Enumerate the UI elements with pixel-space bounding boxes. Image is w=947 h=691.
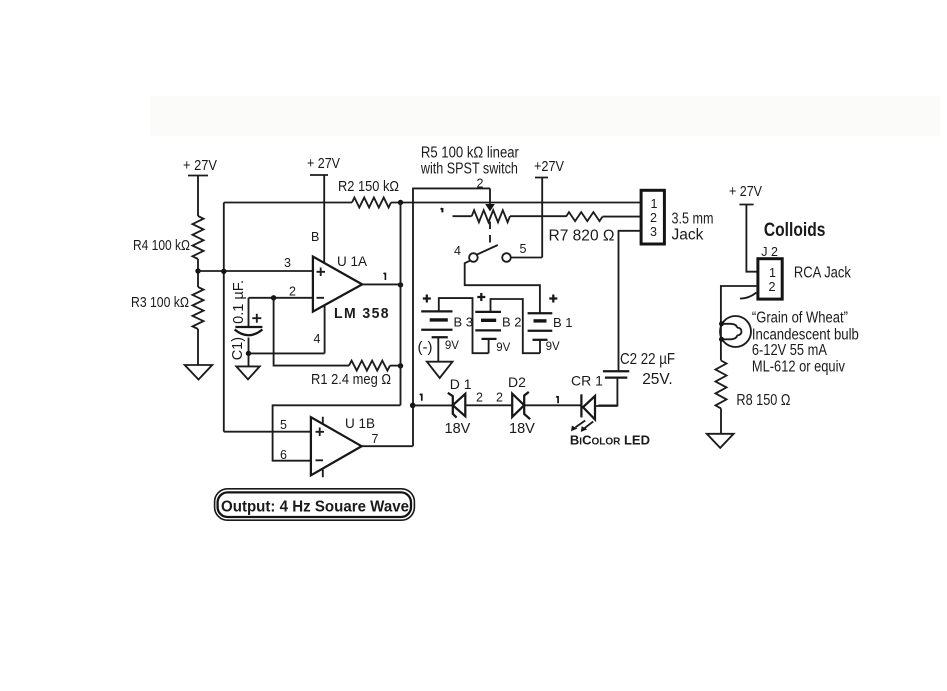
svg-text:3: 3: [284, 256, 291, 270]
svg-text:0.1 µF.: 0.1 µF.: [231, 280, 247, 324]
svg-text:B 2: B 2: [502, 315, 522, 330]
battery B3: [421, 311, 452, 361]
wire U1B pin6 loop (rail to inverting input): [273, 405, 401, 460]
switch contact pin4: [469, 253, 478, 262]
wire CR1 to C2: [595, 405, 617, 407]
switch dashed link: [489, 222, 491, 245]
svg-text:18V: 18V: [509, 421, 535, 437]
wire U1B output pin7: [362, 445, 413, 447]
connector 3.5mm jack J1: [641, 190, 664, 244]
svg-text:18V: 18V: [445, 421, 471, 437]
resistor R3: [193, 287, 204, 329]
supply +27V (left): [183, 157, 217, 216]
output box outer: [215, 489, 415, 520]
wire RCA pin2 to bulb: [721, 286, 758, 361]
node 1 tick mark (CR1): [556, 396, 558, 403]
svg-text:2: 2: [476, 391, 483, 405]
svg-text:4: 4: [314, 332, 321, 346]
svg-text:25V.: 25V.: [642, 371, 672, 388]
svg-text:R3 100 kΩ: R3 100 kΩ: [131, 294, 189, 311]
node pin3 / left rail: [221, 269, 226, 274]
supply +27V (right): [729, 183, 762, 272]
svg-text:C2 22 µF: C2 22 µF: [620, 351, 675, 368]
wire U1A output rail down: [400, 203, 402, 406]
svg-text:B: B: [311, 230, 319, 244]
wire pin2 branch down to R1: [274, 298, 349, 366]
svg-text:R2 150 kΩ: R2 150 kΩ: [338, 178, 399, 195]
wire pin3 (non-inverting input U1A): [198, 270, 313, 272]
B2 plus: [477, 293, 485, 301]
op-amp U1A: [313, 257, 362, 312]
output box inner: [218, 492, 411, 517]
svg-text:2: 2: [496, 391, 503, 405]
svg-text:9V: 9V: [546, 341, 560, 353]
svg-text:+27V: +27V: [534, 158, 564, 175]
svg-text:6-12V 55 mA: 6-12V 55 mA: [752, 342, 828, 359]
node pin2 / R1 branch: [271, 295, 276, 300]
svg-text:1: 1: [769, 266, 776, 280]
svg-text:Colloids: Colloids: [764, 219, 826, 241]
wire left rail (to U1B pin5): [223, 203, 225, 432]
wire D2 to CR1: [524, 404, 581, 406]
node R1 / rail: [398, 363, 403, 368]
resistor R7: [566, 212, 603, 221]
switch contact pin5: [502, 253, 511, 262]
node R2 / rail: [398, 200, 403, 205]
node U1A out: [398, 282, 403, 287]
op-amp U1B: [311, 417, 362, 478]
wire switch pin5 to +27V: [511, 257, 542, 259]
svg-text:6: 6: [280, 448, 287, 462]
wire node to D1: [413, 404, 455, 406]
wire R7 to jack pin2: [603, 216, 642, 218]
label 3.5mm jack: [672, 210, 714, 243]
svg-text:D2: D2: [508, 374, 526, 390]
wire pin 4 (U1A V-): [324, 305, 326, 353]
svg-text:R5 100 kΩ linear: R5 100 kΩ linear: [421, 145, 519, 162]
labels bulb: [752, 309, 859, 375]
svg-text:C1): C1): [230, 337, 246, 360]
svg-text:CR 1: CR 1: [571, 373, 603, 389]
zener D2: [512, 392, 530, 419]
svg-text:7: 7: [372, 432, 379, 446]
wire R4-R3: [197, 259, 199, 287]
svg-text:B 1: B 1: [553, 315, 573, 330]
supply +27V (U1A pin 8): [307, 155, 340, 263]
wire jack pin3 down to C2: [619, 231, 642, 371]
svg-text:2: 2: [650, 211, 657, 225]
svg-text:D 1: D 1: [450, 376, 472, 392]
node U1B out / diode chain: [410, 403, 416, 409]
wire U1B pin5: [224, 431, 311, 433]
node 1 tick mark: [420, 394, 422, 401]
svg-text:9V: 9V: [496, 342, 510, 354]
battery B2: [475, 312, 501, 353]
svg-text:B 3: B 3: [454, 315, 474, 330]
svg-text:ML-612 or equiv: ML-612 or equiv: [752, 358, 845, 375]
resistor R1: [349, 361, 390, 371]
potentiometer R5 wiper: [489, 188, 491, 204]
svg-text:+ 27V: + 27V: [183, 157, 217, 174]
svg-text:R1 2.4 meg Ω: R1 2.4 meg Ω: [311, 371, 391, 388]
svg-text:+ 27V: + 27V: [307, 155, 340, 172]
resistor R8: [716, 361, 727, 409]
label R5: [420, 145, 519, 178]
svg-text:1: 1: [651, 197, 658, 211]
svg-text:J 2: J 2: [761, 245, 778, 259]
svg-text:5: 5: [280, 418, 287, 432]
svg-text:9V: 9V: [445, 340, 459, 352]
node C1 / pin4 wire: [246, 351, 251, 356]
switch lever: [477, 245, 498, 255]
tick mark under RCA jack: [740, 293, 757, 299]
svg-text:3: 3: [650, 225, 657, 239]
B3 plus: [423, 295, 431, 303]
wire B1- to B2+: [491, 299, 541, 353]
wire R8 to ground: [720, 408, 722, 433]
LED CR1: [571, 394, 595, 432]
zener D1: [448, 393, 466, 418]
wire B2- to B3+: [439, 298, 489, 353]
svg-text:(-): (-): [418, 339, 433, 356]
svg-text:Jack: Jack: [672, 227, 704, 244]
wire R1 to U1A rail: [390, 365, 401, 367]
svg-text:3.5 mm: 3.5 mm: [672, 210, 714, 227]
svg-text:U 1B: U 1B: [345, 416, 375, 431]
pot pin1 tick mark: [441, 208, 443, 212]
battery B1: [528, 313, 553, 353]
svg-text:with SPST switch: with SPST switch: [420, 161, 518, 178]
svg-text:U 1A: U 1A: [337, 254, 367, 269]
supply +27V (switch): [534, 158, 564, 258]
connector RCA jack J2: [758, 259, 782, 299]
wire R5 rail (pot top to U1B out): [413, 188, 490, 446]
svg-text:Output: 4 Hz Souare Wave: Output: 4 Hz Souare Wave: [221, 499, 409, 516]
pin 1 tick mark: [384, 273, 386, 280]
svg-text:2: 2: [769, 280, 776, 294]
wire R3 to ground: [197, 329, 199, 365]
wire C1 to pin4: [249, 352, 325, 354]
svg-text:2: 2: [477, 177, 484, 191]
ground (battery): [427, 362, 453, 378]
capacitor C2: [598, 371, 629, 405]
svg-text:+ 27V: + 27V: [729, 183, 762, 200]
ground (C1): [236, 366, 259, 379]
svg-text:4: 4: [454, 244, 461, 258]
node R4/R3 junction: [195, 268, 200, 273]
wire top rail (U1A out / R2 to 3.5mm jack pin1): [224, 202, 641, 204]
svg-text:“Grain of Wheat”: “Grain of Wheat”: [752, 309, 848, 326]
incandescent bulb: [719, 316, 751, 347]
B1 plus: [549, 295, 557, 303]
ground (R3): [185, 365, 213, 380]
ground (R8): [707, 434, 734, 448]
svg-text:R4 100 kΩ: R4 100 kΩ: [133, 237, 190, 254]
svg-text:2: 2: [289, 285, 296, 299]
potentiometer R5 element: [453, 215, 472, 217]
svg-text:5: 5: [520, 242, 527, 256]
svg-text:R7 820 Ω: R7 820 Ω: [549, 228, 615, 245]
resistor R4: [193, 216, 204, 259]
wire D1 to D2: [465, 404, 512, 406]
wire switch pin4 to B1+: [465, 261, 540, 314]
capacitor C1: [235, 298, 263, 367]
svg-text:RCA Jack: RCA Jack: [794, 265, 851, 282]
svg-text:R8 150 Ω: R8 150 Ω: [736, 392, 790, 409]
resistor R2: [352, 198, 391, 208]
svg-text:Incandescent bulb: Incandescent bulb: [752, 326, 859, 343]
scan noise bands: [150, 96, 940, 136]
wire pin2 (inverting input U1A): [249, 297, 313, 299]
wire U1A output pin1: [362, 283, 400, 285]
svg-text:LM 358: LM 358: [334, 305, 390, 322]
